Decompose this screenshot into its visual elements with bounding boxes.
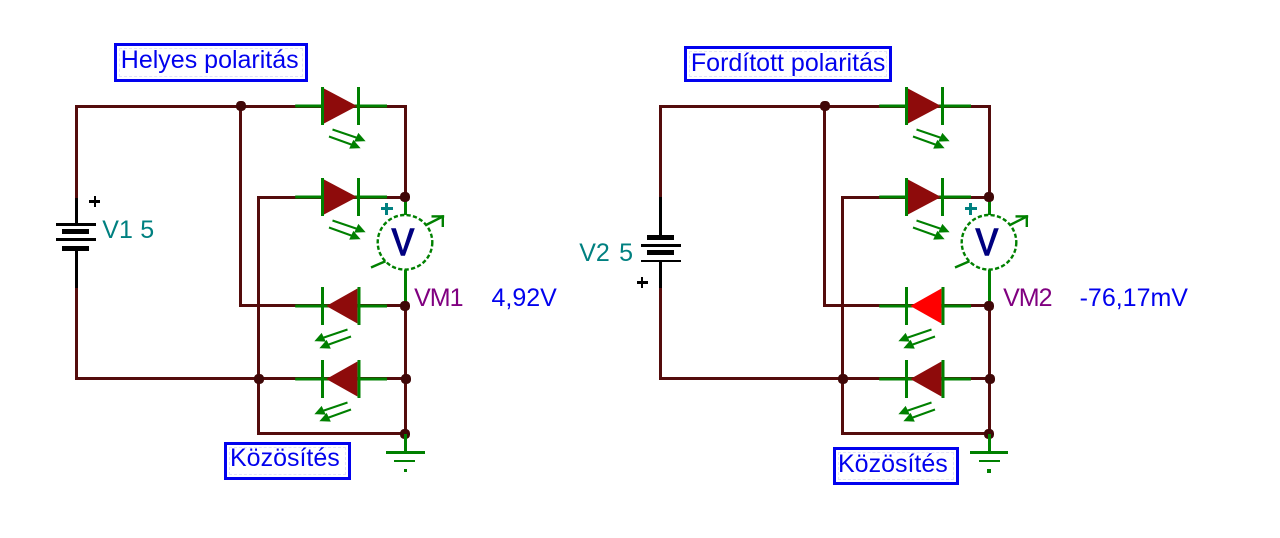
wire left rail upper right circuit: [659, 105, 662, 198]
wire inner rail A vertical right circuit: [823, 105, 826, 308]
wire right rail upper (row1 to VM1 top node): [404, 105, 407, 200]
wire right rail upper right circuit: [988, 105, 991, 200]
wire inner rail B vertical right circuit: [841, 196, 844, 435]
wire VM2 bottom lead green: [988, 268, 991, 306]
node: VM2 bottom junction: [984, 301, 994, 311]
battery V1: [75, 198, 78, 223]
LED D8 (row4 right circuit, reversed): [877, 351, 971, 425]
node: row1 junction: [236, 101, 246, 111]
battery V1 plus sign: [89, 200, 100, 203]
node: row4 right junction right circuit: [985, 374, 995, 384]
label box "Közösítés" (right): [833, 447, 959, 485]
reading -76,17mV: [1080, 284, 1188, 313]
wire inner rail A vertical x=240.6: [239, 105, 242, 308]
wire left rail lower right circuit: [659, 288, 662, 380]
value 5 of V1: [140, 216, 154, 245]
node: VM1 top junction: [400, 192, 410, 202]
wire inner rail B vertical x=258.5: [257, 196, 260, 435]
LED D6 (row2 right circuit): [877, 169, 971, 243]
wire left rail upper (battery top to row1): [75, 105, 78, 198]
label box "Közösítés" (left): [224, 442, 351, 480]
wire row2 horizontal right circuit: [841, 196, 991, 199]
LED D7 (row3 right circuit, reversed, lit red): [877, 278, 971, 352]
LED D5 (row1 right circuit): [877, 78, 971, 152]
wire bottom rail: [257, 432, 407, 435]
label V1: [102, 216, 133, 245]
wire bottom rail right circuit: [841, 432, 991, 435]
voltmeter VM2: [949, 200, 1033, 286]
battery V2 (reversed): [659, 197, 662, 235]
wire row3 horizontal right circuit: [823, 304, 991, 307]
node: row1 junction right circuit: [820, 101, 830, 111]
LED D1 (row1): [293, 78, 387, 152]
value 5 of V2: [619, 239, 633, 268]
label VM2: [1003, 284, 1051, 313]
label VM1: [414, 284, 462, 313]
VM1 plus sign (teal): [381, 207, 393, 210]
wire VM1 bottom lead green: [404, 268, 407, 306]
wire right rail lower (row3 node to bottom rail): [404, 304, 407, 435]
label box "Fordított polaritás": [684, 46, 892, 82]
wire top rail row1 right circuit: [659, 105, 991, 108]
wire VM1 top lead green: [404, 196, 407, 216]
node: VM2 top junction: [984, 192, 994, 202]
wire left rail lower (battery bottom to row4): [75, 288, 78, 380]
wire right rail lower right circuit: [988, 304, 991, 435]
battery V2 plus sign: [637, 281, 648, 284]
LED D4 (row4, reversed): [293, 351, 387, 425]
voltmeter VM1: [365, 200, 449, 286]
wire VM2 top lead green: [988, 196, 991, 216]
wire row3 horizontal: [239, 304, 407, 307]
node: row4 left junction right circuit: [838, 374, 848, 384]
node: bottom rail junction right circuit: [984, 429, 994, 439]
LED D2 (row2): [293, 169, 387, 243]
label box "Helyes polaritás": [114, 43, 308, 82]
node: row4 left junction: [254, 374, 264, 384]
wire row4 horizontal: [75, 377, 407, 380]
label V2: [579, 239, 610, 268]
wire row4 horizontal right circuit: [659, 377, 991, 380]
VM2 plus sign (teal): [965, 207, 977, 210]
node: row4 right junction: [401, 374, 411, 384]
node: bottom rail junction: [400, 429, 410, 439]
ground (right circuit): [988, 434, 991, 452]
wire row2 horizontal: [257, 196, 407, 199]
node: VM1 bottom junction: [400, 301, 410, 311]
LED D3 (row3, reversed): [293, 278, 387, 352]
reading 4,92V: [492, 284, 557, 313]
ground (left circuit): [404, 434, 407, 452]
wire top rail row1 left circuit: [75, 105, 407, 108]
